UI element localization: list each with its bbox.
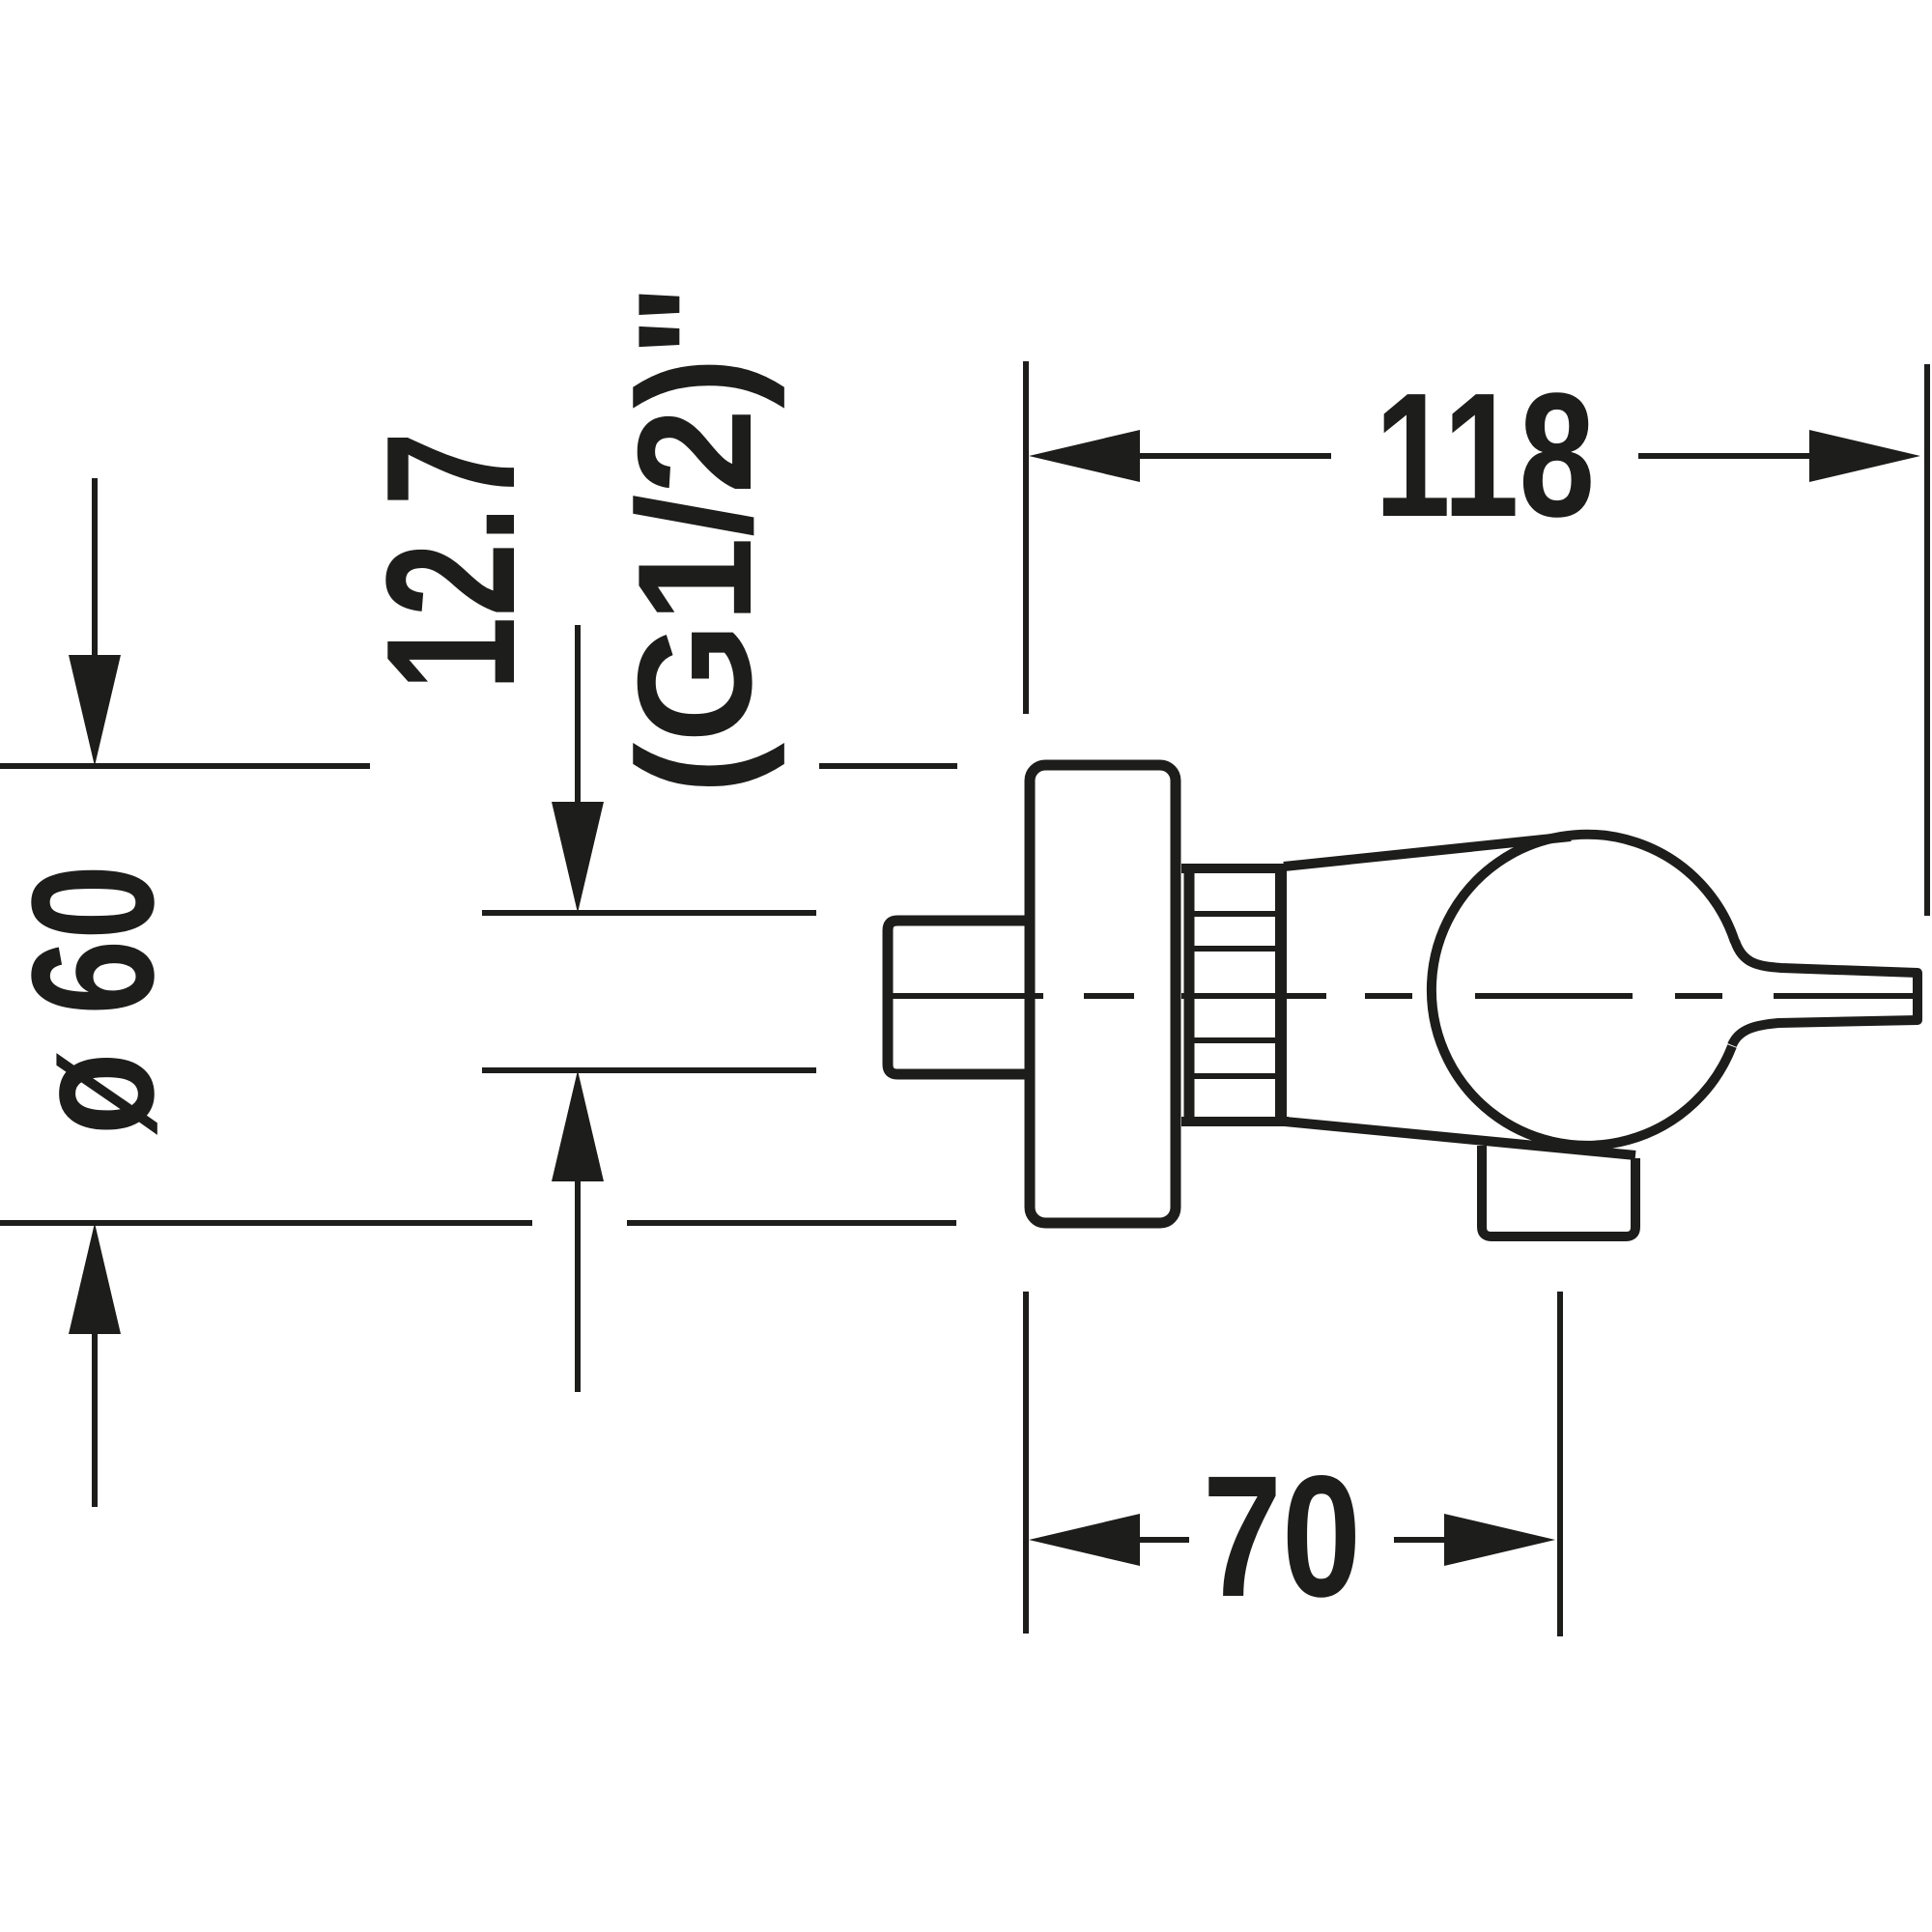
center line dot right of circle xyxy=(1675,993,1722,999)
thread section left bar xyxy=(1184,865,1195,1125)
thread section bottom edge xyxy=(1181,1117,1289,1126)
dia60 lower arrow tail xyxy=(92,1330,98,1507)
dia60 top extension line right segment xyxy=(819,763,957,769)
118 left extension line xyxy=(1023,361,1029,714)
70 right extension line xyxy=(1557,1292,1563,1636)
70 right arrowhead xyxy=(1444,1514,1555,1566)
dia60 upper arrowhead xyxy=(69,655,121,766)
thread ridge 2 xyxy=(1194,946,1276,952)
dia60 bottom extension line left segment xyxy=(0,1220,532,1226)
70 dimension line left segment xyxy=(1136,1537,1189,1543)
handle lever outline xyxy=(1732,941,1918,1045)
12.7 upper arrowhead xyxy=(552,802,604,913)
118 dimension line right segment xyxy=(1638,453,1813,459)
svg-text:118: 118 xyxy=(1375,355,1595,554)
12.7 lower arrow tail xyxy=(575,1178,581,1392)
valve body cone top edge xyxy=(1284,837,1571,867)
svg-text:70: 70 xyxy=(1203,1439,1361,1633)
outlet spout xyxy=(1482,1146,1635,1236)
118 left arrowhead xyxy=(1029,430,1140,482)
12.7 upper arrow tail xyxy=(575,625,581,806)
118 right arrowhead xyxy=(1809,430,1920,482)
center line dot inside flange xyxy=(1084,993,1134,999)
thread ridge 4 xyxy=(1194,1073,1276,1079)
svg-text:ø 60: ø 60 xyxy=(0,865,190,1135)
118 dimension line left segment xyxy=(1136,453,1331,459)
12.7 lower arrowhead xyxy=(552,1070,604,1181)
flange escutcheon xyxy=(1030,765,1176,1223)
70 left extension line xyxy=(1023,1292,1029,1634)
70 left arrowhead xyxy=(1029,1514,1140,1566)
thread ridge 1 xyxy=(1194,911,1276,917)
wall nipple G1/2 connector xyxy=(888,921,1063,1074)
thread ridge 3 xyxy=(1194,1037,1276,1043)
valve body cone bottom edge merging into outlet top xyxy=(1285,1122,1635,1155)
12.7 bottom extension line xyxy=(482,1067,816,1073)
dia60 top extension line left segment xyxy=(0,763,370,769)
svg-text:(G1/2)": (G1/2)" xyxy=(604,284,785,794)
dia60 bottom extension line right segment xyxy=(627,1220,956,1226)
thread section top edge xyxy=(1181,864,1286,873)
12.7 top extension line xyxy=(482,910,816,916)
118 right extension line xyxy=(1924,364,1930,916)
svg-text:12.7: 12.7 xyxy=(349,432,554,691)
center line dot in cone xyxy=(1365,993,1412,999)
center line dash through nipple xyxy=(889,993,1043,999)
dia60 lower arrowhead xyxy=(69,1223,121,1334)
mixer body circle xyxy=(1432,835,1735,1146)
70 dimension line right segment xyxy=(1394,1537,1448,1543)
center line dash through thread xyxy=(1181,993,1326,999)
dia60 upper arrow tail xyxy=(92,478,98,659)
center line dash through circle xyxy=(1475,993,1633,999)
thread section right bar xyxy=(1275,865,1287,1125)
center line dash through handle xyxy=(1774,993,1917,999)
